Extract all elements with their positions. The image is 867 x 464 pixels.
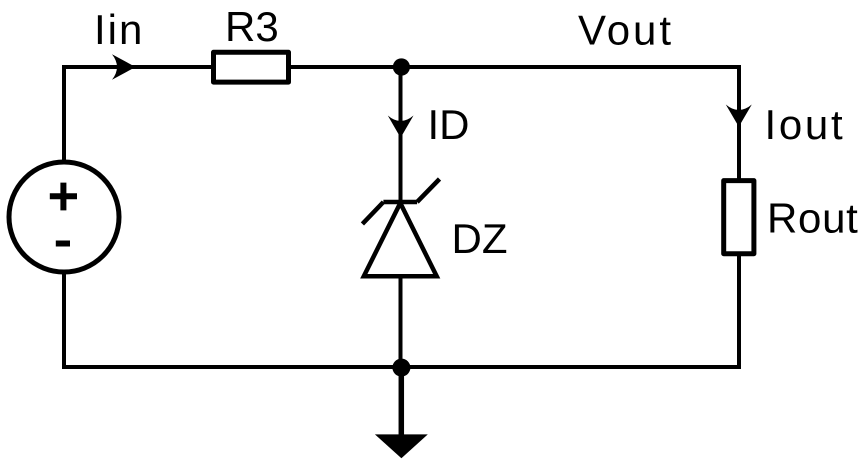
svg-text:Iout: Iout	[765, 101, 846, 148]
svg-text:ID: ID	[428, 101, 470, 148]
svg-text:R3: R3	[225, 3, 279, 50]
svg-text:Vout: Vout	[578, 6, 674, 53]
svg-text:Iin: Iin	[94, 6, 144, 53]
svg-text:Rout: Rout	[767, 194, 859, 241]
svg-text:DZ: DZ	[452, 215, 508, 262]
